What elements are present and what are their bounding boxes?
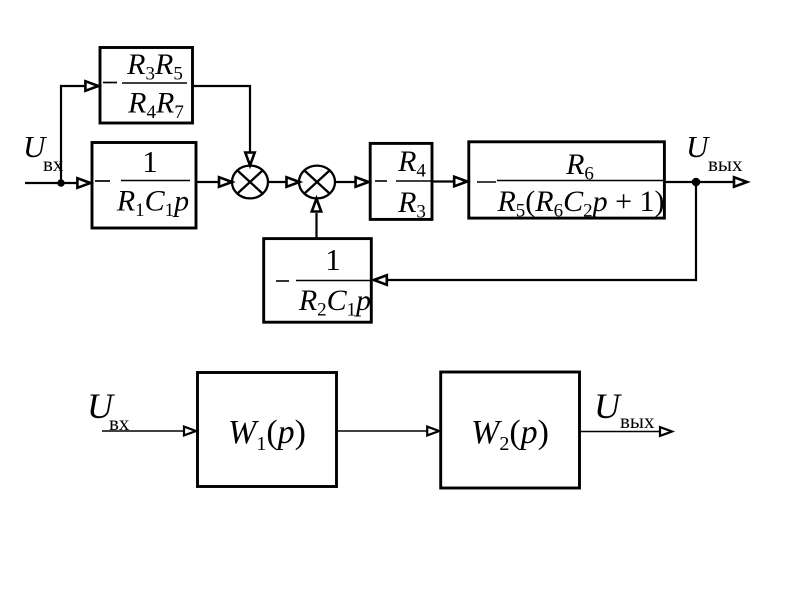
arrow down into summer S1 — [245, 153, 254, 166]
arrow into block A5 right side — [374, 275, 387, 285]
arrow into summer S2 left — [287, 177, 300, 187]
svg-text:R2C1p: R2C1p — [298, 284, 371, 321]
wire bottom input line — [102, 430, 184, 432]
wire A3 to block A4 — [433, 180, 455, 182]
node input junction — [57, 179, 64, 186]
wire input line — [25, 182, 78, 184]
node output junction — [692, 178, 701, 187]
block A4 R6/(R5(R6C2p+1)) — [469, 142, 665, 222]
summer S2 — [299, 166, 335, 199]
svg-text:вых: вых — [708, 152, 743, 176]
wire bottom output line — [581, 431, 662, 433]
arrow into summer S1 left — [219, 177, 232, 187]
wire branch up from input node — [61, 86, 85, 183]
label U_vx (top input) — [23, 129, 64, 176]
block A5 1/R2C1p — [264, 239, 372, 323]
wire A4 output — [666, 181, 735, 183]
wire S2 to block A3 — [335, 181, 357, 183]
arrow bottom output tip — [660, 427, 672, 436]
wire A5 output up to summer S2 — [315, 213, 317, 239]
block A3 R4/R3 — [370, 143, 432, 222]
label U_vyx (top output) — [686, 129, 743, 176]
arrow into block A1 — [85, 81, 98, 91]
block W1 — [198, 373, 337, 487]
label U_vyx (bottom output) — [594, 386, 655, 433]
svg-text:R5(R6C2p + 1): R5(R6C2p + 1) — [496, 185, 664, 222]
wire W1 to W2 — [338, 430, 429, 432]
arrow into block A4 — [454, 177, 467, 187]
block A1 R3R5/R4R7 — [100, 48, 193, 124]
svg-text:1: 1 — [325, 242, 341, 277]
svg-text:W2(p): W2(p) — [471, 414, 549, 455]
svg-text:W1(p): W1(p) — [228, 414, 306, 455]
summer S1 — [232, 166, 268, 199]
svg-text:R3R5: R3R5 — [126, 48, 183, 85]
svg-text:R6: R6 — [565, 148, 594, 185]
svg-text:вых: вых — [620, 409, 655, 433]
svg-text:R4R7: R4R7 — [127, 87, 184, 124]
arrow into block A2 — [77, 178, 90, 188]
svg-text:1: 1 — [142, 144, 158, 179]
wire feedback from output node — [388, 182, 696, 280]
arrow into block W2 — [427, 427, 439, 436]
wire A1 output to summer S1 — [194, 86, 250, 161]
svg-text:R1C1p: R1C1p — [116, 185, 189, 222]
svg-text:R4: R4 — [397, 145, 426, 182]
wire S1 to S2 — [268, 181, 288, 183]
arrow into block W1 — [184, 427, 196, 436]
wire A2 output to summer S1 — [198, 181, 220, 183]
block A2 1/R1C1p — [92, 143, 196, 229]
arrow output tip — [734, 177, 747, 187]
arrow up into summer S2 bottom — [312, 199, 321, 212]
svg-text:U: U — [594, 386, 622, 426]
arrow into block A3 — [356, 177, 369, 187]
label U_vx (bottom input) — [87, 386, 130, 435]
block W2 — [441, 372, 580, 488]
svg-text:R3: R3 — [397, 186, 426, 223]
